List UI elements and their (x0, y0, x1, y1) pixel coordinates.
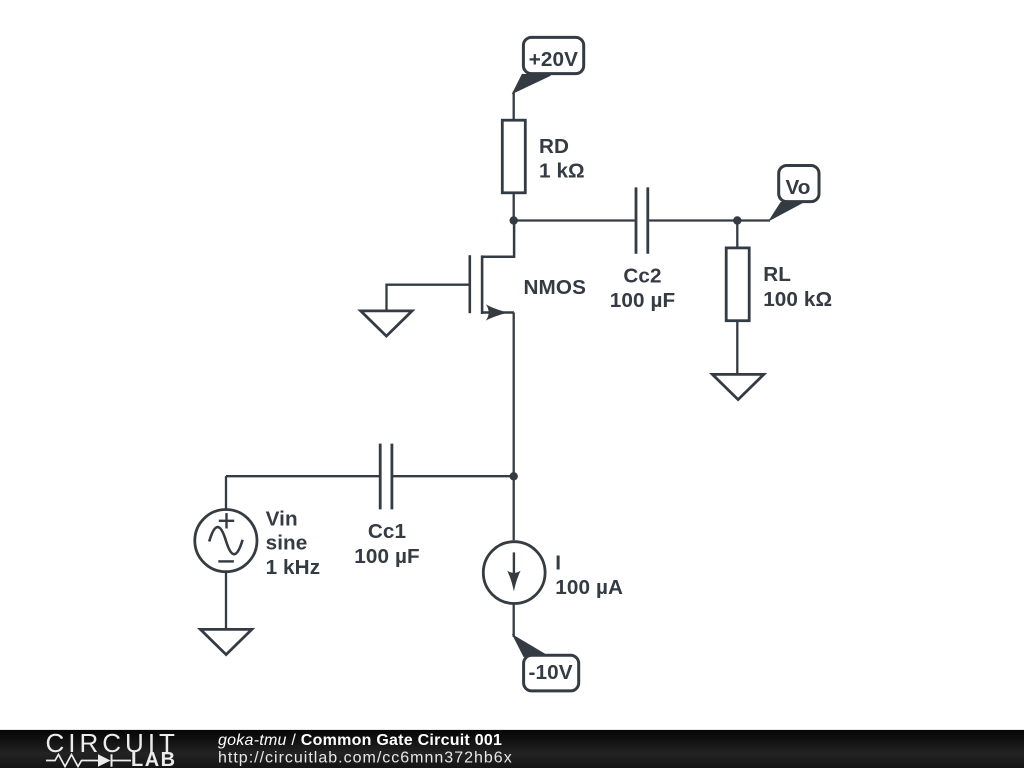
CircuitLab logo resistor-diode squiggle (46, 755, 98, 767)
wire: current source to -10V flag (513, 603, 515, 637)
power flag -10V (513, 636, 578, 691)
svg-text:100 µF: 100 µF (354, 545, 419, 568)
transistor Q1 source stub with arrow (482, 304, 514, 320)
svg-text:LAB: LAB (131, 749, 177, 768)
resistor RD (502, 120, 525, 193)
svg-text:I: I (555, 551, 561, 574)
svg-text:Cc2: Cc2 (623, 264, 661, 287)
svg-text:100 µA: 100 µA (555, 576, 623, 599)
source Vin (sine) (195, 509, 257, 571)
svg-text:sine: sine (266, 532, 308, 555)
transistor Q1 NMOS gate bar (468, 255, 471, 313)
svg-text:1 kΩ: 1 kΩ (539, 160, 585, 183)
wire: gate to ground (387, 285, 471, 312)
svg-text:RL: RL (763, 263, 791, 286)
wire: input node to current source (513, 476, 515, 540)
svg-text:100 kΩ: 100 kΩ (763, 288, 832, 311)
svg-text:100 µF: 100 µF (610, 289, 675, 312)
svg-text:goka-tmu / Common Gate Circuit: goka-tmu / Common Gate Circuit 001 (218, 732, 502, 749)
wire: Vin to Cc1 (226, 475, 379, 477)
wire: RD to drain node (513, 193, 515, 221)
net flag Vo (770, 166, 819, 221)
wire: +20V to RD (513, 92, 515, 121)
svg-text:+20V: +20V (529, 48, 578, 71)
svg-text:1 kHz: 1 kHz (266, 556, 321, 579)
current source I (483, 542, 545, 604)
ground (RL) (712, 374, 763, 399)
svg-text:Vo: Vo (785, 176, 810, 199)
resistor RL (726, 248, 749, 321)
svg-text:http://circuitlab.com/cc6mnn37: http://circuitlab.com/cc6mnn372hb6x (218, 750, 513, 767)
ground (Vin) (200, 629, 251, 654)
wire: RL to ground (736, 321, 738, 375)
node: output junction (733, 216, 741, 224)
svg-text:Cc1: Cc1 (368, 520, 406, 543)
capacitor Cc2 (636, 187, 648, 253)
ground (gate) (361, 311, 412, 336)
footer bar (0, 730, 1024, 768)
wire: drain node down to NMOS drain (482, 221, 514, 257)
svg-text:Vin: Vin (266, 507, 298, 530)
transistor Q1 NMOS channel bar (481, 255, 484, 314)
wire: Vin top lead (225, 476, 227, 510)
power flag +20V (513, 37, 584, 93)
svg-text:NMOS: NMOS (524, 276, 586, 299)
wire: drain node to Cc2 (514, 219, 635, 221)
svg-text:RD: RD (539, 135, 569, 158)
wire: Cc1 to input node (393, 475, 514, 477)
svg-text:-10V: -10V (529, 661, 573, 684)
wire: Vin bottom lead (225, 572, 227, 630)
wire: output node to Vo flag (737, 219, 770, 221)
wire: NMOS source down to input node (513, 313, 515, 477)
node: input junction (510, 472, 518, 480)
capacitor Cc1 (380, 444, 392, 510)
wire: output node to RL (736, 221, 738, 249)
wire: Cc2 to output node (649, 219, 737, 221)
node: drain junction (510, 216, 518, 224)
